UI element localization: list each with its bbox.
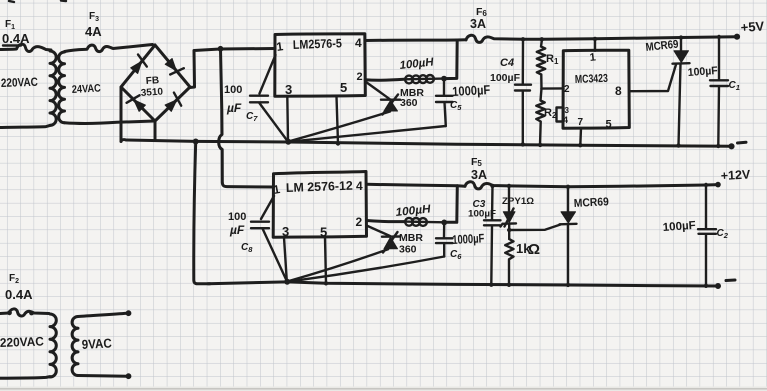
wire bridge minus drop: [120, 88, 123, 142]
svg-text:360: 360: [400, 97, 418, 109]
bridge diode D2: [165, 59, 176, 71]
thyristor Q2 MCR69: [560, 187, 577, 285]
label C6 1000uF: [450, 231, 485, 261]
capacitor C4: [515, 39, 531, 144]
label C1 100uF: [687, 65, 740, 92]
svg-text:100µF: 100µF: [662, 220, 696, 234]
svg-text:5: 5: [606, 119, 612, 131]
node inductor output: [442, 76, 447, 81]
svg-text:LM2576-5: LM2576-5: [293, 36, 342, 52]
wire R1-R2 junction to U2 pin 2: [542, 87, 564, 90]
fuse F5 label: [471, 156, 487, 182]
wire U1 pin 4 feedback: [365, 38, 466, 42]
node ground rail end top: [729, 144, 734, 149]
svg-text:5: 5: [340, 80, 347, 95]
svg-text:FB: FB: [145, 75, 159, 87]
regulator U1 LM2576-5 box: [275, 34, 366, 96]
regulator U3 LM2576-12 box: [273, 172, 366, 238]
label C5 1000uF: [450, 82, 491, 112]
wire U1 pin 3 to ground node: [286, 97, 289, 142]
diode MBR360 top: [365, 82, 400, 115]
svg-text:100µF: 100µF: [490, 72, 521, 84]
svg-text:4: 4: [356, 179, 363, 193]
capacitor C3: [484, 186, 501, 285]
svg-text:0.4A: 0.4A: [2, 31, 30, 46]
capacitor C6: [287, 222, 452, 281]
wire T2 secondary bottom: [78, 374, 127, 378]
U2 pins 3-4 strap: [557, 106, 570, 125]
svg-text:3A: 3A: [471, 168, 487, 182]
svg-text:4A: 4A: [85, 24, 102, 39]
svg-text:1000µF: 1000µF: [452, 82, 491, 99]
svg-text:µF: µF: [226, 101, 242, 115]
svg-text:Ω: Ω: [528, 241, 540, 258]
svg-text:360: 360: [399, 244, 417, 256]
svg-text:3A: 3A: [470, 17, 486, 31]
resistor R3 1k: [505, 239, 513, 285]
wire U3 pin 3 to ground node: [284, 238, 287, 282]
node ground rail end bottom: [716, 284, 721, 289]
svg-text:ZPY1Ω: ZPY1Ω: [502, 196, 534, 207]
wire zener-R3 junction to Q2 gate: [509, 225, 560, 231]
label C2 100uF: [662, 220, 728, 240]
capacitor C7: [250, 55, 288, 141]
node T2 secondary bottom terminal: [126, 374, 131, 379]
wire U2 pin 1 to +5V rail: [594, 39, 596, 51]
comparator U2 MC3423 box: [563, 50, 629, 128]
fuse F1: [0, 44, 51, 51]
svg-text:3510: 3510: [140, 86, 163, 99]
wire ground rail bottom section: [208, 282, 718, 286]
transformer T1 primary winding: [50, 51, 56, 125]
svg-text:2: 2: [564, 84, 570, 95]
svg-text:3: 3: [565, 106, 570, 115]
svg-text:MCR69: MCR69: [574, 196, 610, 210]
label MBR 360: [400, 87, 424, 109]
node blobs top section: [336, 35, 720, 147]
fuse F2: [0, 309, 49, 316]
label C7 100uF: [224, 84, 258, 123]
label minus top: [738, 141, 747, 145]
capacitor C5: [288, 79, 452, 142]
svg-text:7: 7: [578, 117, 584, 128]
wire +5V rail: [523, 37, 737, 40]
svg-text:MC3423: MC3423: [575, 73, 608, 86]
svg-text:1: 1: [589, 51, 596, 64]
resistor R1: [537, 39, 545, 88]
node +5V end: [734, 34, 739, 39]
label C8 100uF: [228, 211, 253, 254]
label MBR 360 bottom: [399, 232, 423, 256]
capacitor C2: [698, 185, 716, 286]
zener diode ZPY12: [501, 186, 517, 239]
transformer T2 secondary winding: [72, 316, 78, 375]
svg-text:100: 100: [224, 84, 242, 96]
svg-text:3: 3: [285, 82, 292, 97]
thyristor Q1 MCR69: [673, 38, 690, 146]
fuse F2 label: [5, 273, 33, 302]
wire U2 pin 8 to MCR69 gate: [629, 65, 676, 92]
node T2 secondary top terminal: [126, 311, 131, 316]
wire T1 primary bottom: [0, 125, 50, 127]
svg-text:2: 2: [357, 71, 363, 83]
wire bridge AC2 drop: [154, 121, 157, 140]
label 1k ohm: [516, 241, 540, 258]
wire ground drop to bottom section: [194, 142, 210, 284]
wire inductor node to feedback riser bottom: [444, 186, 457, 223]
node ground fan bottom: [285, 279, 290, 284]
capacitor C8: [251, 196, 287, 281]
svg-text:1000µF: 1000µF: [452, 231, 485, 247]
node inductor output bottom: [442, 220, 447, 225]
wire Vin drop with hop: [219, 49, 274, 187]
node fuse F2 right blob: [30, 311, 34, 315]
svg-text:9VAC: 9VAC: [81, 335, 112, 352]
svg-text:4: 4: [563, 115, 568, 125]
svg-text:8: 8: [615, 84, 622, 98]
node ground junction: [193, 139, 198, 144]
svg-text:C4: C4: [500, 57, 514, 69]
svg-text:24VAC: 24VAC: [72, 82, 102, 96]
wire U3 pin 2 to inductor: [367, 221, 405, 222]
diode MBR360 bottom: [367, 226, 400, 253]
fuse F6: [466, 35, 523, 42]
svg-text:0.4A: 0.4A: [5, 287, 33, 302]
svg-text:220VAC: 220VAC: [1, 75, 39, 90]
resistor R2: [536, 89, 544, 146]
svg-text:100µF: 100µF: [468, 209, 496, 220]
bridge rectifier FB3510 frame: [121, 45, 190, 121]
node ground fan top: [286, 139, 291, 144]
transformer T2 primary winding: [50, 314, 56, 377]
wire MBR360 anode to ground node: [288, 112, 390, 142]
svg-text:4: 4: [355, 36, 362, 50]
label C3 100uF: [468, 199, 496, 220]
wire U3 pin 4 feedback: [367, 184, 466, 186]
bridge diode D4: [165, 100, 177, 112]
svg-text:100: 100: [228, 211, 246, 223]
node blobs bottom section: [324, 183, 707, 287]
wire T2 secondary top: [78, 313, 127, 316]
wire MBR360 bottom anode to ground node: [287, 249, 388, 281]
svg-text:LM 2576-12: LM 2576-12: [286, 179, 353, 195]
wire U1 pin 2 to inductor: [365, 78, 404, 82]
node Vin junction: [218, 46, 223, 51]
svg-text:µF: µF: [229, 223, 245, 237]
label FB 3510: [140, 75, 163, 99]
svg-text:220VAC: 220VAC: [0, 334, 44, 350]
wire +12V rail: [509, 185, 718, 187]
bridge diode D3: [134, 100, 146, 112]
fuse F1 label: [2, 19, 30, 46]
wire ground rail top section: [121, 140, 732, 147]
inductor L2 100uH: [404, 218, 444, 226]
wire bridge plus to top rail: [190, 49, 275, 88]
transformer T1 secondary winding: [59, 52, 65, 123]
wire T2 primary bottom: [0, 377, 50, 379]
label C4 100uF: [490, 57, 521, 84]
fuse F5: [465, 182, 509, 189]
wire inductor node to feedback riser: [444, 40, 457, 78]
wire T1 secondary top + fuse F3: [65, 45, 153, 52]
svg-text:100µF: 100µF: [687, 65, 718, 79]
bridge diode D1: [131, 61, 142, 73]
svg-text:2: 2: [356, 215, 363, 229]
label minus bottom: [726, 279, 735, 283]
node +12V end: [716, 182, 721, 187]
wire U3 pin 5 to ground rail: [325, 238, 326, 284]
svg-text:+5V: +5V: [740, 18, 765, 35]
wire U2 pin 7 to ground rail: [579, 128, 582, 145]
inductor L1 100uH: [404, 75, 444, 83]
svg-text:+12V: +12V: [720, 167, 751, 183]
fuse F6 label: [470, 6, 487, 31]
capacitor C1: [710, 37, 728, 146]
wire T1 secondary bottom: [65, 121, 155, 123]
svg-text:MBR: MBR: [399, 232, 423, 244]
wire U1 pin 5 to ground rail: [337, 97, 339, 144]
fuse F3 label: [85, 11, 102, 39]
node fuse F2 left blob: [8, 311, 12, 315]
corner scan tick: [9, 1, 66, 3]
